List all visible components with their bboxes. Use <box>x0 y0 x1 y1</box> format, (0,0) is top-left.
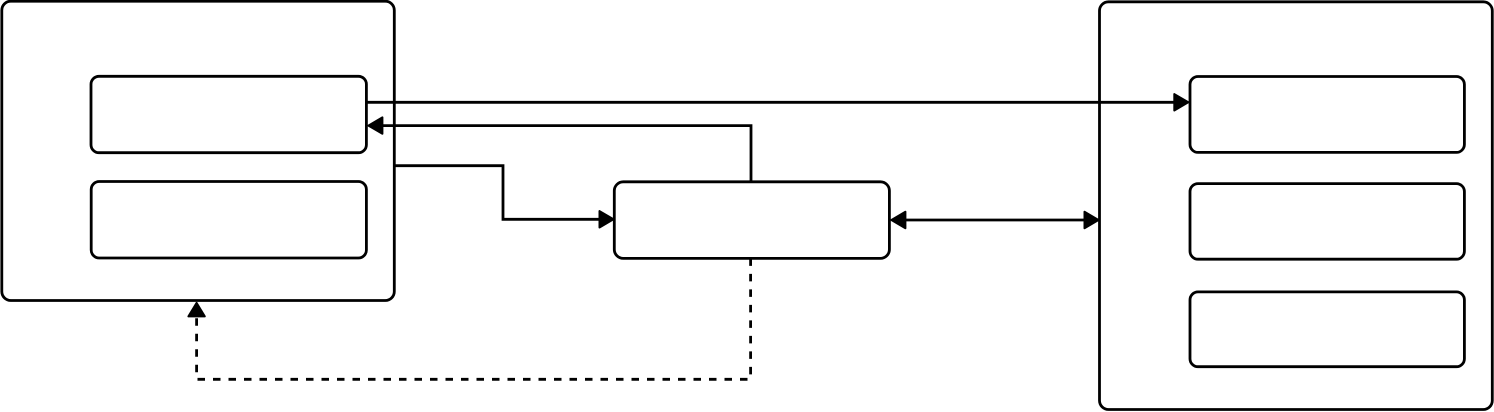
left inner box 2 <box>91 182 366 259</box>
arrowhead C (right) <box>600 211 614 227</box>
arrowhead E (up) <box>188 303 204 317</box>
right inner box 3 <box>1190 292 1464 367</box>
wire B: middle box top to left inner box 1 <box>383 126 752 182</box>
middle box <box>614 182 889 259</box>
arrowhead B (left) <box>368 117 382 133</box>
arrowhead A (right) <box>1174 94 1188 110</box>
left inner box 1 <box>91 76 366 152</box>
right outer box <box>1100 2 1493 410</box>
arrowhead D left <box>891 212 905 228</box>
wire A: left inner box 1 to right inner box 1 <box>366 101 1174 104</box>
right inner box 1 <box>1190 77 1464 153</box>
right inner box 2 <box>1190 184 1464 260</box>
wire C: left outer box to middle box <box>394 166 599 220</box>
left outer box <box>2 1 395 300</box>
dashed wire E: middle box bottom to left outer box bottom <box>197 258 751 379</box>
wire D: middle box to right outer box (double arrow) <box>904 219 1086 222</box>
arrowhead D right <box>1085 212 1099 228</box>
